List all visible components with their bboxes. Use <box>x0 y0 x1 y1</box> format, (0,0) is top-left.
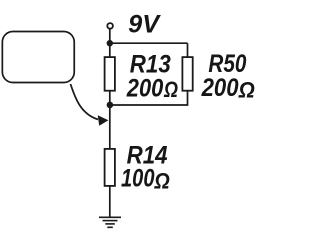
svg-text:Ω: Ω <box>154 168 171 193</box>
resistor R50 body <box>182 57 192 91</box>
svg-text:200: 200 <box>201 74 239 102</box>
wire 9V terminal to node A <box>109 29 111 43</box>
callout arrowhead <box>98 115 109 126</box>
callout tail wire <box>71 84 99 119</box>
svg-text:Ω: Ω <box>163 77 178 102</box>
9V terminal circle <box>107 23 113 29</box>
top wire node A to right branch <box>110 42 188 44</box>
resistor R14 body <box>105 149 115 186</box>
wire node B to R14 <box>109 105 111 149</box>
ground <box>99 217 121 227</box>
node A junction dot <box>107 40 113 46</box>
node B junction dot <box>107 102 114 109</box>
wire R14 to ground <box>109 186 111 217</box>
svg-text:9V: 9V <box>128 11 161 39</box>
wire node A to R13 <box>109 43 111 57</box>
callout bubble <box>2 32 74 83</box>
svg-text:200: 200 <box>126 74 163 102</box>
svg-text:100: 100 <box>121 165 155 193</box>
wire right branch down to R50 <box>187 43 189 57</box>
resistor R13 body <box>105 57 115 91</box>
svg-text:Ω: Ω <box>238 77 256 102</box>
wire R13 to node B <box>109 91 111 106</box>
wire R50 to bottom wire <box>110 91 188 106</box>
